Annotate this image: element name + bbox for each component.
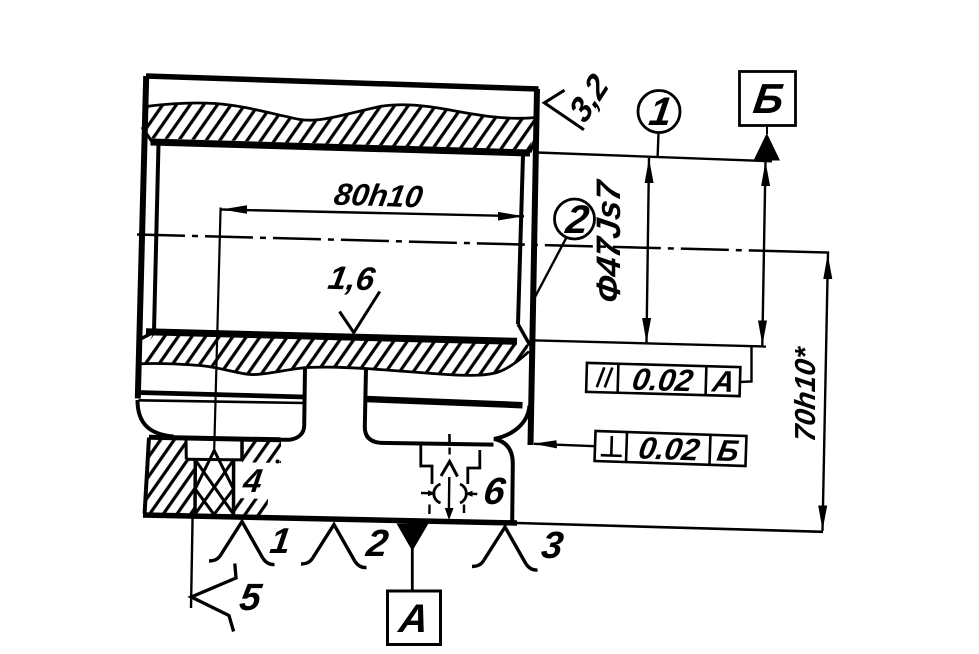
svg-text:А: А — [396, 596, 432, 641]
svg-text:1,6: 1,6 — [325, 260, 378, 298]
svg-text:70h10*: 70h10* — [790, 344, 822, 444]
svg-text:80h10: 80h10 — [332, 177, 426, 214]
svg-text:0.02: 0.02 — [636, 431, 702, 468]
svg-text:Ф47Js7: Ф47Js7 — [590, 177, 628, 305]
svg-text:0.02: 0.02 — [630, 362, 696, 398]
